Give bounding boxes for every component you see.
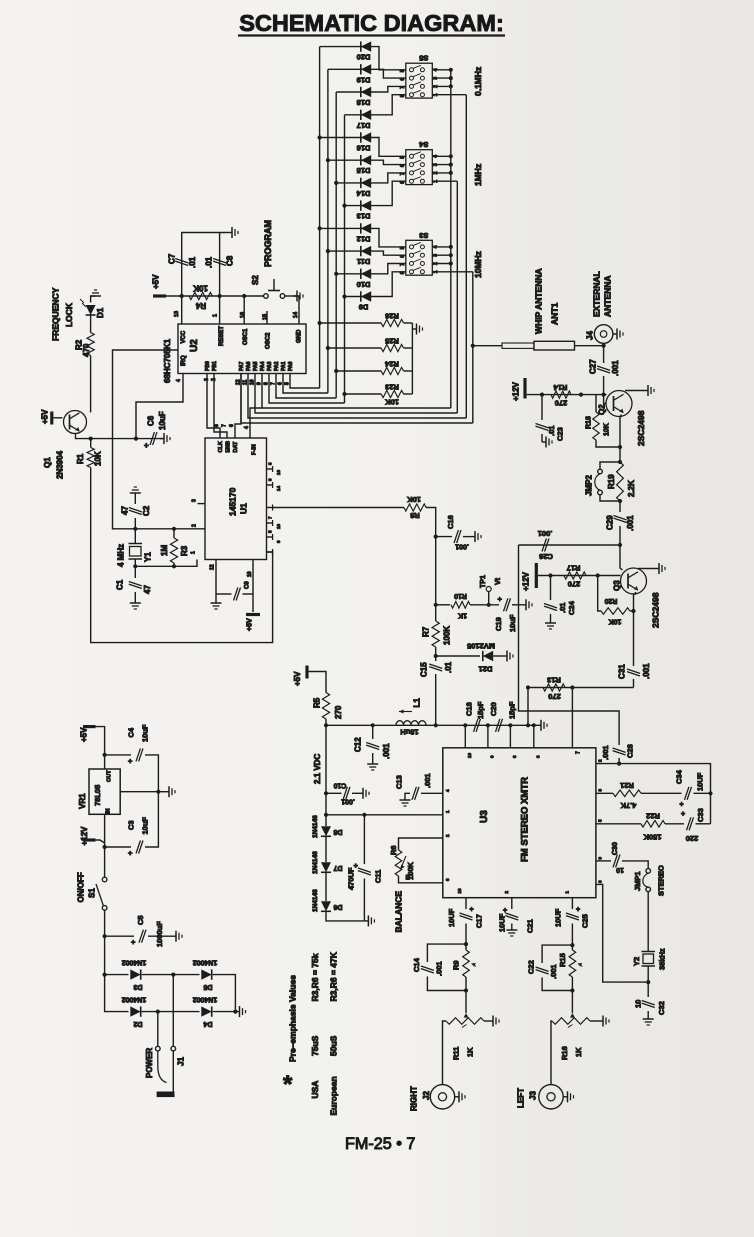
svg-text:5: 5 (400, 69, 406, 72)
svg-text:Q1: Q1 (43, 457, 52, 468)
svg-text:15pF: 15pF (476, 701, 485, 719)
svg-text:1N4148: 1N4148 (312, 889, 319, 912)
svg-text:38kHz: 38kHz (658, 948, 667, 970)
svg-text:C20: C20 (489, 702, 498, 716)
svg-text:Q2: Q2 (597, 404, 606, 415)
svg-text:1N4002: 1N4002 (193, 996, 218, 1003)
svg-text:S3: S3 (419, 231, 428, 240)
svg-text:S1: S1 (87, 888, 96, 898)
svg-text:TP1: TP1 (480, 575, 487, 588)
svg-text:U3: U3 (479, 810, 490, 823)
svg-text:IN: IN (106, 808, 112, 814)
svg-text:*: * (283, 1071, 293, 1098)
svg-text:J1: J1 (176, 1057, 185, 1066)
svg-text:150K: 150K (643, 833, 662, 842)
svg-text:10: 10 (247, 571, 253, 577)
svg-text:C2: C2 (142, 505, 151, 516)
svg-text:100K: 100K (442, 626, 451, 645)
svg-text:10K: 10K (604, 423, 611, 436)
svg-text:4: 4 (176, 379, 182, 382)
svg-text:18: 18 (457, 888, 462, 894)
svg-text:10: 10 (276, 523, 281, 529)
svg-text:C17: C17 (475, 914, 484, 928)
svg-text:10: 10 (616, 866, 624, 873)
svg-text:2.1 VDC: 2.1 VDC (313, 754, 322, 784)
svg-text:Pre–emphasis Values: Pre–emphasis Values (288, 975, 298, 1062)
svg-text:D13: D13 (357, 212, 371, 221)
svg-text:C22: C22 (527, 960, 536, 974)
svg-text:C21: C21 (526, 919, 535, 933)
svg-text:1K: 1K (458, 612, 467, 619)
svg-text:3: 3 (191, 499, 197, 502)
svg-text:D10: D10 (357, 280, 371, 289)
svg-text:D19: D19 (357, 75, 371, 84)
svg-text:+: + (498, 595, 503, 604)
svg-text:L1: L1 (412, 698, 421, 708)
svg-text:1: 1 (190, 551, 196, 554)
svg-text:+: + (470, 907, 474, 914)
svg-text:FM STEREO XMTR: FM STEREO XMTR (519, 777, 530, 862)
svg-text:PB1: PB1 (212, 361, 218, 371)
svg-text:VR1: VR1 (78, 793, 87, 809)
svg-text:6: 6 (400, 255, 406, 258)
svg-text:47: 47 (143, 585, 152, 594)
svg-text:.001: .001 (423, 773, 432, 788)
svg-text:+12V: +12V (80, 826, 89, 846)
svg-text:PROGRAM: PROGRAM (263, 220, 273, 267)
svg-text:.001: .001 (611, 360, 620, 376)
svg-text:13: 13 (174, 311, 180, 317)
svg-text:6: 6 (229, 424, 235, 427)
svg-text:PA1: PA1 (281, 361, 287, 371)
svg-text:+: + (681, 811, 685, 818)
svg-text:+: + (576, 907, 580, 914)
svg-text:C27: C27 (588, 359, 597, 374)
svg-text:C16: C16 (446, 515, 455, 529)
svg-text:D2: D2 (133, 1020, 142, 1027)
svg-text:S2: S2 (251, 275, 260, 285)
svg-text:1N4002: 1N4002 (122, 996, 147, 1003)
svg-text:+12V: +12V (511, 381, 520, 401)
svg-text:R19: R19 (607, 474, 616, 489)
svg-text:.001: .001 (455, 543, 469, 550)
svg-text:R3,R6 = 47K: R3,R6 = 47K (329, 951, 339, 1001)
svg-text:OUT: OUT (107, 770, 113, 782)
svg-text:C28: C28 (626, 744, 635, 758)
svg-text:C15: C15 (419, 662, 428, 677)
svg-text:10: 10 (634, 1000, 643, 1008)
svg-text:C7: C7 (167, 253, 176, 264)
svg-text:R11: R11 (452, 1047, 461, 1060)
svg-text:R9: R9 (452, 960, 461, 970)
svg-text:10MHz: 10MHz (473, 251, 483, 278)
svg-text:C9: C9 (245, 581, 251, 589)
svg-text:.001: .001 (626, 515, 635, 531)
svg-text:14: 14 (293, 311, 299, 318)
svg-text:470: 470 (82, 343, 91, 357)
svg-text:.001: .001 (601, 745, 610, 760)
svg-text:R21: R21 (620, 781, 634, 790)
svg-text:10K: 10K (609, 618, 622, 625)
svg-text:D9: D9 (359, 303, 369, 312)
svg-text:10uF: 10uF (158, 411, 167, 430)
svg-text:European: European (329, 1076, 339, 1115)
svg-text:15pF: 15pF (508, 701, 517, 719)
svg-text:USA: USA (310, 1081, 320, 1099)
svg-text:R14: R14 (553, 383, 568, 392)
svg-text:J4: J4 (585, 331, 594, 340)
svg-text:10K: 10K (407, 495, 421, 504)
svg-text:7: 7 (221, 424, 227, 427)
svg-text:2: 2 (191, 524, 197, 527)
svg-text:16: 16 (467, 752, 472, 758)
svg-text:.01: .01 (204, 256, 213, 268)
svg-text:OSC1: OSC1 (243, 328, 249, 345)
svg-text:C6: C6 (146, 415, 155, 426)
svg-text:1K: 1K (466, 1047, 475, 1057)
svg-text:D16: D16 (357, 144, 371, 153)
svg-text:R5: R5 (312, 697, 321, 708)
svg-text:C11: C11 (374, 870, 383, 883)
svg-text:D15: D15 (357, 166, 371, 175)
svg-text:7: 7 (575, 751, 581, 754)
svg-text:.01: .01 (444, 661, 453, 673)
svg-text:C30: C30 (612, 842, 619, 855)
svg-text:D6: D6 (333, 903, 342, 910)
svg-text:2N3904: 2N3904 (55, 450, 64, 479)
svg-text:10UF: 10UF (554, 908, 563, 927)
svg-text:470UF: 470UF (347, 867, 356, 890)
svg-text:8: 8 (400, 94, 406, 97)
svg-text:1000uF: 1000uF (155, 921, 164, 947)
svg-text:+5V: +5V (40, 409, 49, 424)
svg-text:D8: D8 (333, 828, 342, 835)
svg-text:B: B (406, 875, 411, 882)
svg-text:R18: R18 (586, 416, 593, 429)
svg-text:VCC: VCC (181, 330, 187, 343)
svg-text:U2: U2 (189, 339, 200, 352)
svg-text:6: 6 (400, 164, 406, 167)
svg-text:R8: R8 (410, 511, 420, 520)
svg-text:C14: C14 (412, 957, 421, 972)
svg-text:PA7: PA7 (239, 361, 245, 371)
svg-text:R10: R10 (454, 592, 467, 599)
svg-text:10UF: 10UF (696, 772, 705, 791)
svg-text:C24: C24 (567, 600, 576, 615)
svg-text:.001: .001 (538, 529, 553, 538)
svg-text:PA5: PA5 (253, 361, 259, 371)
svg-text:C26: C26 (539, 552, 553, 561)
svg-text:C12: C12 (353, 737, 362, 752)
svg-text:PA2: PA2 (274, 361, 280, 371)
svg-text:10uF: 10uF (141, 817, 150, 835)
svg-text:8: 8 (400, 271, 406, 274)
svg-text:PB0: PB0 (205, 361, 211, 371)
svg-text:270: 270 (568, 580, 581, 589)
svg-text:Q3: Q3 (612, 580, 621, 591)
svg-text:270: 270 (548, 692, 561, 701)
svg-text:C1: C1 (115, 579, 124, 590)
svg-text:CLK: CLK (218, 441, 224, 452)
svg-text:16: 16 (240, 312, 246, 318)
svg-text:C3: C3 (127, 820, 136, 830)
svg-text:12: 12 (209, 564, 215, 570)
svg-text:16: 16 (276, 469, 281, 475)
svg-text:MV2105: MV2105 (467, 642, 495, 651)
svg-text:+: + (680, 802, 684, 809)
svg-text:LEFT: LEFT (516, 1088, 525, 1108)
svg-text:2SC2498: 2SC2498 (636, 410, 646, 446)
svg-text:Y2: Y2 (632, 957, 641, 966)
svg-text:D18: D18 (357, 98, 371, 107)
svg-text:PA3: PA3 (267, 361, 273, 371)
svg-text:R26: R26 (385, 312, 399, 321)
svg-text:D4: D4 (203, 1020, 212, 1027)
svg-text:+5V: +5V (247, 618, 254, 631)
svg-text:R24: R24 (384, 360, 399, 369)
svg-text:5: 5 (400, 246, 406, 249)
svg-text:F-IN: F-IN (252, 444, 258, 455)
svg-text:1: 1 (213, 314, 219, 317)
svg-text:+: + (128, 757, 133, 766)
svg-text:+: + (144, 441, 149, 450)
svg-text:Vt: Vt (495, 577, 502, 585)
svg-text:C33: C33 (696, 808, 705, 822)
svg-text:1K: 1K (574, 1047, 583, 1057)
svg-text:U1: U1 (239, 503, 249, 514)
svg-text:R3: R3 (180, 545, 189, 556)
svg-text:C31: C31 (617, 664, 626, 679)
svg-text:Y1: Y1 (143, 552, 152, 562)
svg-text:DAT: DAT (233, 441, 239, 453)
svg-text:IRQ: IRQ (181, 355, 187, 366)
svg-text:ON/OFF: ON/OFF (76, 872, 85, 902)
svg-text:R20: R20 (604, 597, 617, 604)
svg-text:LOCK: LOCK (64, 302, 74, 327)
svg-text:7: 7 (400, 172, 406, 175)
svg-text:.001: .001 (382, 743, 391, 759)
svg-text:10K: 10K (93, 451, 102, 466)
svg-text:C18: C18 (465, 702, 474, 716)
svg-text:1N4148: 1N4148 (312, 815, 319, 838)
svg-text:FREQUENCY: FREQUENCY (51, 287, 61, 341)
svg-text:R13: R13 (547, 676, 561, 685)
svg-text:D21: D21 (479, 665, 493, 674)
svg-text:6: 6 (400, 78, 406, 81)
svg-text:RIGHT: RIGHT (409, 1086, 418, 1111)
svg-text:50uS: 50uS (329, 1035, 339, 1056)
svg-text:10K: 10K (385, 398, 399, 407)
svg-text:ANTENNA: ANTENNA (603, 275, 613, 317)
svg-text:10uF: 10uF (508, 614, 517, 632)
svg-text:10K: 10K (193, 283, 208, 292)
svg-text:R23: R23 (385, 383, 399, 392)
svg-text:R25: R25 (385, 337, 399, 346)
svg-text:RESET: RESET (219, 326, 225, 346)
svg-text:7: 7 (400, 86, 406, 89)
svg-text:WHIP ANTENNA: WHIP ANTENNA (534, 268, 544, 334)
svg-text:R22: R22 (646, 812, 660, 821)
svg-text:1N4148: 1N4148 (312, 851, 319, 874)
svg-text:STEREO: STEREO (657, 865, 666, 896)
svg-text:C10: C10 (333, 782, 346, 789)
svg-text:C32: C32 (657, 1001, 666, 1015)
svg-text:.001: .001 (642, 663, 651, 679)
svg-text:ENB: ENB (226, 441, 232, 453)
svg-text:PA6: PA6 (246, 361, 252, 371)
svg-text:68HC705K1: 68HC705K1 (163, 338, 172, 383)
svg-text:PA0: PA0 (288, 361, 294, 371)
svg-text:S4: S4 (418, 140, 428, 149)
svg-text:1N4002: 1N4002 (193, 959, 218, 966)
svg-text:D20: D20 (357, 53, 371, 62)
svg-text:R15: R15 (558, 953, 567, 967)
svg-text:JMP1: JMP1 (633, 871, 642, 891)
svg-text:10UF: 10UF (447, 908, 456, 927)
svg-text:.001: .001 (341, 798, 355, 805)
svg-text:PA4: PA4 (260, 361, 266, 371)
svg-text:270: 270 (555, 399, 568, 408)
svg-text:C4: C4 (127, 727, 136, 737)
svg-text:.001: .001 (435, 961, 444, 976)
svg-text:4: 4 (244, 426, 250, 429)
svg-text:4 MHz: 4 MHz (116, 544, 125, 567)
svg-text:R3,R6 = 75k: R3,R6 = 75k (310, 953, 320, 1001)
svg-text:8: 8 (214, 424, 220, 427)
svg-text:D14: D14 (356, 189, 371, 198)
svg-text:0.1MHz: 0.1MHz (473, 67, 483, 96)
svg-text:2SC2498: 2SC2498 (651, 592, 661, 628)
svg-text:ANT1: ANT1 (550, 303, 560, 325)
svg-text:+5V: +5V (79, 727, 88, 742)
svg-text:.01: .01 (188, 256, 197, 268)
svg-text:D3: D3 (133, 983, 142, 990)
svg-text:18uH: 18uH (400, 728, 418, 737)
svg-text:8: 8 (400, 181, 406, 184)
svg-text:10uF: 10uF (141, 724, 150, 742)
svg-text:4.7K: 4.7K (620, 801, 636, 810)
svg-text:POWER: POWER (145, 1048, 154, 1078)
svg-text:J2: J2 (422, 1091, 431, 1100)
svg-text:JMP2: JMP2 (584, 475, 593, 496)
svg-text:75uS: 75uS (310, 1035, 320, 1056)
svg-text:14: 14 (276, 485, 281, 491)
svg-text:+5V: +5V (293, 671, 302, 686)
svg-text:GND: GND (297, 329, 303, 343)
svg-text:1MHz: 1MHz (473, 164, 483, 186)
svg-text:.01: .01 (558, 603, 567, 613)
svg-text:C29: C29 (605, 515, 614, 530)
svg-text:C34: C34 (675, 769, 684, 784)
svg-text:FM-25 • 7: FM-25 • 7 (345, 1135, 415, 1153)
svg-text:C23: C23 (556, 427, 565, 441)
svg-text:R17: R17 (567, 564, 581, 573)
svg-text:+: + (131, 938, 136, 947)
svg-text:C19: C19 (494, 617, 503, 631)
svg-text:.001: .001 (549, 964, 558, 979)
svg-text:+: + (128, 849, 133, 858)
svg-text:R16: R16 (560, 1046, 569, 1060)
svg-text:5: 5 (400, 156, 406, 159)
svg-text:EXTERNAL: EXTERNAL (592, 271, 602, 317)
svg-text:C8: C8 (225, 255, 234, 266)
svg-text:OSC2: OSC2 (266, 332, 272, 349)
svg-text:D1: D1 (96, 307, 105, 318)
svg-text:D11: D11 (357, 257, 370, 266)
svg-text:10UF: 10UF (498, 913, 507, 932)
svg-text:C5: C5 (136, 915, 145, 925)
svg-text:D7: D7 (333, 864, 342, 871)
svg-text:R1: R1 (76, 453, 85, 464)
svg-text:78L05: 78L05 (93, 785, 102, 806)
svg-text:145170: 145170 (228, 487, 238, 516)
svg-text:R6: R6 (389, 845, 398, 855)
svg-text:2.2K: 2.2K (627, 480, 636, 497)
svg-text:D12: D12 (357, 234, 371, 243)
svg-text:47: 47 (120, 506, 129, 515)
svg-text:C13: C13 (395, 775, 404, 789)
svg-text:J3: J3 (528, 1091, 537, 1100)
svg-text:+5V: +5V (151, 274, 160, 289)
svg-text:D5: D5 (203, 983, 212, 990)
svg-text:+12V: +12V (521, 571, 530, 591)
svg-text:1M: 1M (160, 545, 169, 556)
svg-text:S5: S5 (419, 54, 428, 63)
svg-text:R7: R7 (421, 626, 430, 637)
svg-text:C25: C25 (581, 914, 590, 928)
svg-text:BALANCE: BALANCE (394, 891, 404, 933)
svg-text:7: 7 (400, 263, 406, 266)
svg-text:R4: R4 (195, 301, 206, 310)
svg-text:SCHEMATIC DIAGRAM:: SCHEMATIC DIAGRAM: (239, 10, 504, 36)
svg-text:D17: D17 (357, 121, 371, 130)
svg-text:1N4002: 1N4002 (122, 959, 147, 966)
svg-text:220: 220 (686, 834, 699, 843)
svg-text:270: 270 (334, 705, 343, 719)
